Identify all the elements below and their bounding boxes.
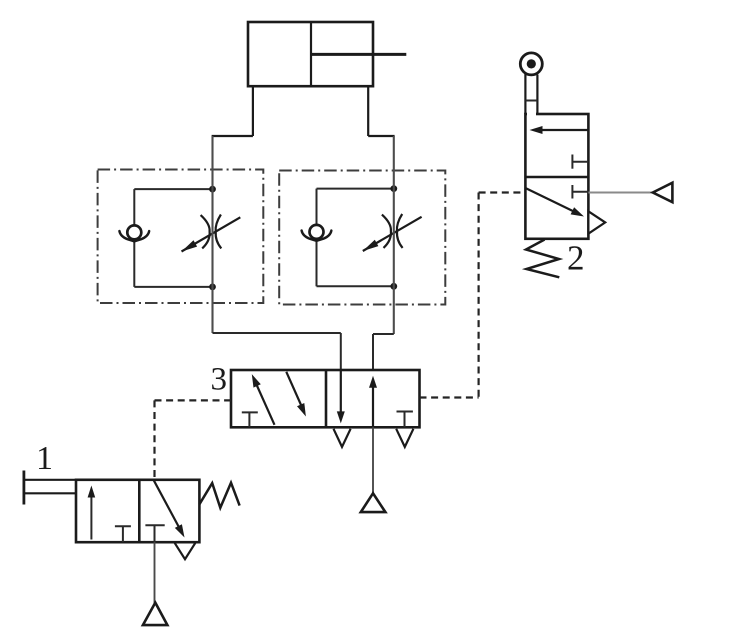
svg-text:2: 2 bbox=[567, 239, 585, 278]
svg-text:1: 1 bbox=[36, 440, 53, 477]
svg-text:3: 3 bbox=[211, 362, 228, 398]
